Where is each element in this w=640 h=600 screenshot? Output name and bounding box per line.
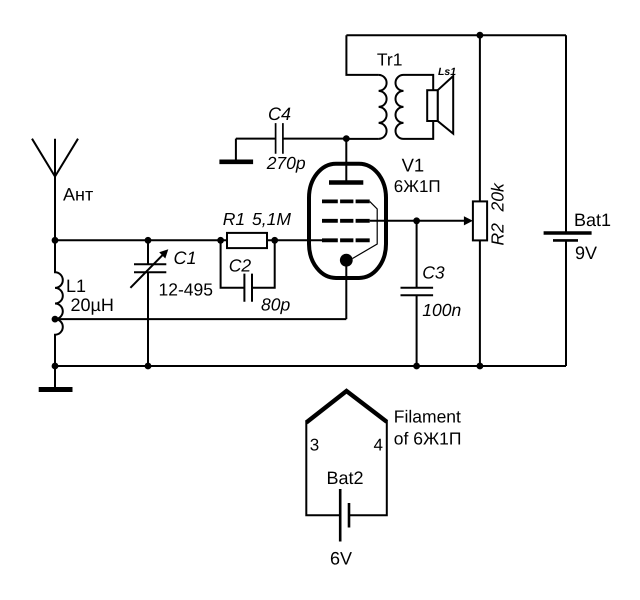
inductor L1 (55, 240, 63, 366)
wire R2 top lead (479, 35, 481, 201)
svg-text:6V: 6V (330, 548, 352, 568)
svg-text:Ls1: Ls1 (438, 66, 456, 78)
wire filament left leg (306, 421, 340, 515)
capacitor C1 (variable) (130, 240, 166, 366)
svg-text:R1: R1 (223, 209, 245, 229)
ground (39, 366, 73, 390)
svg-text:L1: L1 (66, 276, 86, 296)
tube anode bar (329, 180, 363, 185)
node dot R1 left (217, 237, 224, 244)
wire Tr1 primary bottom lead (346, 138, 378, 140)
node dot plate/C4/Tr1 (343, 135, 350, 142)
node dot L1 tap (52, 316, 59, 323)
svg-text:100n: 100n (422, 300, 461, 320)
node dot R1 right (271, 237, 278, 244)
wire R2 bottom lead (479, 240, 481, 366)
svg-text:C1: C1 (174, 248, 197, 268)
speaker Ls1 cone (438, 76, 454, 134)
transformer Tr1 secondary (396, 75, 404, 139)
battery Bat1 (544, 233, 592, 240)
wire cathode tap y=319 (55, 318, 346, 320)
wire Bat1 bottom lead (565, 240, 567, 366)
svg-text:V1: V1 (402, 155, 425, 176)
tube grid g3 (dashed) (322, 199, 370, 203)
resistor R1 (227, 233, 267, 248)
node dot L1 bottom (52, 363, 59, 370)
svg-text:9V: 9V (575, 243, 597, 263)
node dot antenna/main (52, 237, 59, 244)
potentiometer R2 (473, 201, 487, 240)
transformer Tr1 primary (379, 75, 387, 139)
node dot top rail/R2 (477, 32, 484, 39)
tube grid g2 (dashed) (322, 219, 370, 223)
capacitor C2 (221, 240, 275, 301)
svg-text:of 6Ж1П: of 6Ж1П (394, 429, 462, 449)
svg-text:270p: 270p (266, 153, 306, 173)
ground chassis bar at C4 (219, 160, 253, 165)
svg-text:C2: C2 (229, 256, 252, 276)
wire main grid bus y=240 (55, 239, 227, 241)
antenna (32, 139, 78, 240)
svg-text:4: 4 (374, 436, 383, 455)
svg-text:Bat2: Bat2 (327, 468, 364, 488)
svg-text:20µH: 20µH (71, 295, 114, 315)
wire plate to junction (345, 139, 347, 183)
speaker Ls1 body (427, 90, 438, 121)
svg-text:C3: C3 (422, 263, 445, 283)
node dot C1 bottom (145, 363, 152, 370)
svg-text:R2: R2 (488, 223, 508, 246)
tube grid g1 (dashed) (322, 238, 370, 242)
battery Bat2 (340, 489, 349, 542)
filament roof symbol (306, 391, 387, 423)
wire Bat1 top lead (565, 35, 567, 233)
svg-text:Ант: Ант (63, 185, 93, 205)
tube cathode dot (340, 254, 353, 267)
svg-text:80p: 80p (261, 294, 290, 314)
node dot g2/C3 (413, 217, 420, 224)
svg-text:3: 3 (310, 436, 319, 455)
svg-text:5,1M: 5,1M (252, 209, 291, 229)
wire cathode lead (345, 260, 347, 319)
capacitor C3 (401, 221, 434, 366)
capacitor C4 (236, 123, 347, 160)
wire ground bus y=366 (55, 365, 566, 367)
node dot R2 bottom (477, 363, 484, 370)
wire Tr1 primary top lead (346, 35, 378, 75)
wire filament right leg (349, 420, 387, 515)
svg-text:6Ж1П: 6Ж1П (394, 177, 441, 196)
tube V1 envelope (309, 164, 386, 278)
wire top rail y=35 (346, 34, 566, 36)
svg-text:Tr1: Tr1 (377, 50, 403, 70)
wiper arrowhead (464, 216, 473, 225)
svg-text:C4: C4 (268, 104, 291, 124)
wire g2 to R2 wiper (370, 220, 465, 222)
svg-text:Bat1: Bat1 (574, 210, 611, 230)
node dot C3 bottom (413, 363, 420, 370)
wire secondary to speaker (404, 75, 434, 139)
tube internal g3-cathode link (353, 201, 378, 258)
svg-text:Filament: Filament (394, 407, 461, 427)
wire R1 right to tube (267, 239, 322, 241)
node dot C1 top (145, 237, 152, 244)
svg-text:12-495: 12-495 (159, 280, 214, 300)
svg-text:20k: 20k (488, 182, 508, 212)
